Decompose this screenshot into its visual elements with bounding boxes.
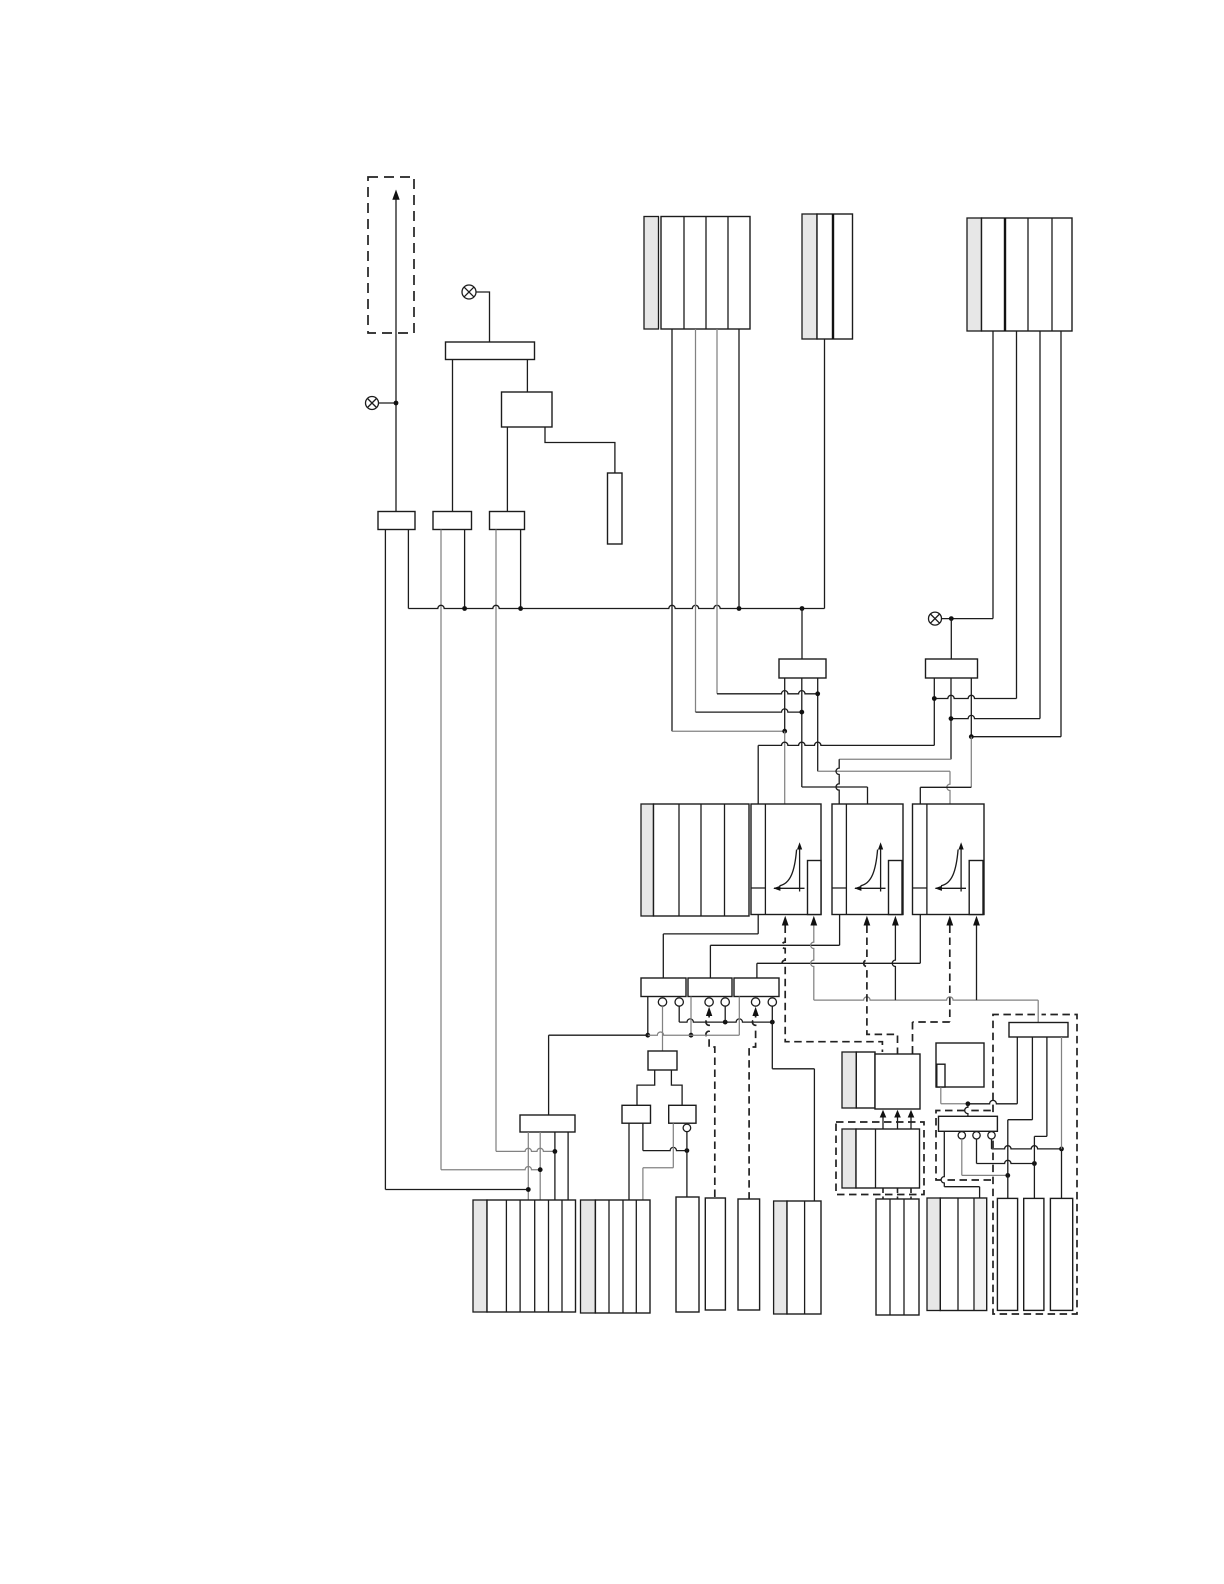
node bar1 line3 bbox=[815, 691, 820, 696]
bus wire with hops bbox=[408, 605, 824, 608]
wire bar1 line2 to box6 main bbox=[802, 787, 868, 804]
wire L4 to bar M2 bbox=[671, 1070, 682, 1105]
bar L2 bbox=[688, 978, 732, 997]
wire square output to right bar line1 (hop over dashed border) bbox=[968, 1100, 1017, 1103]
bar M1 bbox=[622, 1105, 651, 1123]
wire L0 line3 bbox=[554, 1132, 556, 1200]
wire L0 line4 bbox=[567, 1132, 569, 1200]
wire MB3 to NB3 feed (hops) bbox=[992, 1139, 1062, 1149]
node bus/bar1 feed bbox=[800, 606, 805, 611]
wire box A right to bus bbox=[407, 530, 409, 609]
wire mid bar left edge to box BM2 (hop over dashed bottom) bbox=[941, 1131, 980, 1198]
pin circle L1a bbox=[658, 998, 666, 1006]
wire bar2 line3 bbox=[970, 678, 972, 737]
node y1151/line3 bbox=[553, 1149, 558, 1154]
bar L0 bbox=[520, 1115, 575, 1132]
sheet connector symbol X2 bbox=[462, 285, 476, 299]
wire box6 left entry (hops over y771 and y787) bbox=[836, 759, 839, 804]
sheet connector symbol X1 bbox=[366, 397, 379, 410]
node MB1/NB1 feed bbox=[1005, 1173, 1010, 1178]
node M1 right / M2 circle line bbox=[685, 1148, 690, 1153]
parameter box B bbox=[433, 512, 472, 530]
wire box1 col1 to bar1 line1 (grey) bbox=[672, 730, 785, 732]
arrowhead up bbox=[392, 190, 399, 200]
box1 grey column bbox=[644, 217, 659, 330]
wire box C right to bus bbox=[520, 530, 522, 609]
slim block bbox=[608, 473, 623, 544]
wire bar1 line2 bbox=[801, 678, 803, 787]
wire solid arrow into box6 rect (hop over y963) bbox=[892, 926, 895, 1001]
wire bar2 feed bbox=[950, 619, 952, 659]
wire right bar line4 (grey) bbox=[1061, 1037, 1063, 1149]
right connector bar bbox=[1009, 1023, 1068, 1038]
wire L3 left edge down bbox=[738, 997, 740, 1036]
dashed frame around output arrow bbox=[368, 177, 414, 333]
arrowhead into box7 bbox=[946, 916, 953, 926]
box2 grey column bbox=[802, 214, 817, 339]
wire box3 col4 down bbox=[1060, 331, 1062, 737]
wire M2 circle to box N1 bbox=[686, 1132, 688, 1199]
long horizontal wire y1035 right part (grey with hops) bbox=[648, 1032, 740, 1035]
wire box5 output to bar L1 bbox=[663, 915, 758, 979]
function square block bbox=[936, 1043, 984, 1087]
wire box1 col3 to bar1 line3 bbox=[717, 691, 818, 694]
box BL2 bbox=[595, 1200, 650, 1313]
wire box1 col2 to bar1 line2 bbox=[696, 709, 802, 712]
wire T1 to box B bbox=[452, 360, 454, 512]
wire box6 output to bar L2 (hops over dashed and grey verticals) bbox=[710, 915, 839, 979]
dashed stub 2 to box BM1 bbox=[897, 1188, 899, 1199]
box BL1 grey column bbox=[473, 1200, 487, 1312]
grey feedback wire main run bbox=[814, 997, 1038, 1023]
wire bar2 line3 to box3 col4 bbox=[971, 736, 1061, 738]
wire box3 col3 down bbox=[1039, 331, 1041, 719]
wire solid arrow into box5 rect (grey) bbox=[811, 926, 814, 1001]
wire right bar line4 lower to box NB3 bbox=[1061, 1149, 1063, 1199]
pin circle L2b bbox=[721, 998, 729, 1006]
node junction on arrow line bbox=[394, 401, 399, 406]
wire T2 to slim block bbox=[545, 427, 615, 473]
parameter bar1 bbox=[779, 659, 826, 678]
dashed frame around lower composite bbox=[836, 1122, 924, 1195]
wire L4 to bar M1 bbox=[637, 1070, 655, 1105]
wire L1 left edge down bbox=[647, 997, 649, 1036]
node bar2 line2 bbox=[949, 716, 954, 721]
wire branch down into mid bar (hop over dashed edge) bbox=[965, 1104, 968, 1117]
wire box2 to bus end bbox=[824, 339, 826, 609]
box BL1 bbox=[487, 1200, 576, 1312]
node bar1 line1 bbox=[782, 729, 787, 734]
solid arrow up 3 into composite bbox=[908, 1110, 915, 1129]
dashed stub 1 to box BM1 bbox=[882, 1188, 884, 1199]
box4 parameter table bbox=[654, 804, 750, 916]
pin circle L3a bbox=[751, 998, 759, 1006]
box N1 bbox=[676, 1197, 699, 1312]
box NB3 bbox=[1050, 1198, 1072, 1310]
parameter bar2 bbox=[926, 659, 978, 678]
node L3b on y1022 bbox=[770, 1020, 775, 1025]
wire right bar line2 to box NB1 bbox=[1008, 1037, 1033, 1198]
wire box A left long drop bbox=[385, 530, 528, 1190]
wire L0 line2 (grey) bbox=[539, 1132, 541, 1200]
wire bar1 line1 upper bbox=[784, 678, 786, 731]
pin circle MB3 bbox=[988, 1132, 995, 1139]
box NB1 bbox=[997, 1198, 1017, 1310]
node L2 left / long horizontal bbox=[689, 1033, 694, 1038]
arrowhead into box6 rect bbox=[892, 916, 899, 926]
pin circle MB2 bbox=[973, 1132, 980, 1139]
wire box1 col3 (grey) bbox=[716, 329, 718, 694]
wire square output (grey part) bbox=[941, 1087, 968, 1104]
wire box1 col1 bbox=[671, 329, 673, 731]
wire box5 left entry bbox=[757, 745, 759, 804]
arrowhead into box5 bbox=[782, 916, 789, 926]
box BM2 light column bbox=[975, 1199, 986, 1310]
wire bar2 line2 bbox=[950, 678, 952, 759]
wire box3 col1 to connector X3 bbox=[942, 331, 994, 619]
node bus/box1 col4 bbox=[737, 606, 742, 611]
bar M2 bbox=[669, 1105, 696, 1123]
wire box C left joins L0 line3 (grey, hops over lines 1,2) bbox=[496, 1148, 555, 1151]
wire X1 to arrow line bbox=[379, 402, 397, 404]
wire bar2 line3 to box7 left bbox=[920, 787, 971, 804]
node bus/box C bbox=[518, 606, 523, 611]
pin circle MB1 bbox=[958, 1132, 965, 1139]
dashed wire from box6 down bbox=[864, 926, 898, 1055]
wire horizontal y1022 linking pin circles bbox=[679, 1019, 772, 1022]
box BL2 grey column bbox=[581, 1200, 596, 1313]
composite upper-left grey column bbox=[842, 1052, 856, 1108]
node X3 line / bar2 feed bbox=[949, 616, 954, 621]
wire bar2 line2 to box6 left (grey) bbox=[839, 758, 951, 760]
node bar2 line1 bbox=[932, 696, 937, 701]
box2 parameter table bbox=[817, 214, 853, 339]
bar1 feed from bus bbox=[801, 609, 803, 660]
ramp block box5 bbox=[751, 804, 821, 915]
arrowhead into box5 rect bbox=[810, 916, 817, 926]
box4 grey column bbox=[641, 804, 654, 916]
box BM1 bbox=[876, 1199, 919, 1315]
box1 parameter table bbox=[661, 217, 750, 330]
box3 parameter table bbox=[982, 218, 1073, 331]
arrowhead into box7 rect bbox=[973, 916, 980, 926]
wire L1a to L4 (grey) bbox=[662, 1006, 664, 1051]
function square notch bbox=[937, 1064, 945, 1087]
dashed wire up into L3a from box N3 bbox=[749, 1010, 756, 1199]
wire MB2 to NB2 feed (hop over NB1 feed) bbox=[977, 1139, 1035, 1164]
mid connector bar bbox=[939, 1116, 998, 1131]
wire T1 to box T2 bbox=[526, 360, 528, 393]
node MB2/NB2 feed bbox=[1032, 1161, 1037, 1166]
wire bar2 line1 to box5 left with hops bbox=[758, 742, 934, 745]
wire X2 to bar T1 bbox=[476, 292, 490, 342]
wire L0 line1 (grey) bbox=[527, 1132, 529, 1200]
wire bar1 line3 bbox=[817, 678, 819, 771]
box BM2 bbox=[940, 1198, 986, 1311]
box N2 bbox=[705, 1198, 725, 1310]
solid arrow up 2 into composite bbox=[894, 1110, 901, 1129]
solid arrow up 1 into composite bbox=[880, 1110, 887, 1129]
node bar1 line2 bbox=[799, 710, 804, 715]
ramp block box7 bbox=[913, 804, 985, 915]
node L2b on y1022 bbox=[723, 1020, 728, 1025]
bar L3 bbox=[734, 978, 779, 997]
wire T2 to box C bbox=[506, 427, 508, 512]
block L4 bbox=[648, 1051, 677, 1070]
wire box C left long drop (grey) bbox=[495, 530, 497, 1152]
wire box B right to bus bbox=[464, 530, 466, 609]
box7 curve glyph bbox=[935, 842, 966, 891]
node square output branch bbox=[966, 1101, 971, 1106]
big dashed frame bbox=[993, 1015, 1077, 1315]
box N4 bbox=[787, 1201, 821, 1314]
box N3 bbox=[738, 1199, 760, 1310]
composite upper-right box bbox=[875, 1054, 920, 1109]
arrowhead into L3a bbox=[752, 1007, 758, 1016]
pin circle M2 bbox=[683, 1124, 691, 1132]
node bus/box B bbox=[462, 606, 467, 611]
box NB2 bbox=[1024, 1198, 1044, 1310]
node bar2 line3 bbox=[969, 734, 974, 739]
wire bar2 line1 to box3 col2 bbox=[934, 695, 1016, 698]
wire L1b down bbox=[678, 1006, 680, 1022]
bar L1 bbox=[641, 978, 686, 997]
wire MB1 (grey) to NB1 feed bbox=[962, 1139, 1008, 1175]
wire solid arrow into box7 rect bbox=[976, 926, 978, 1001]
pin circle L1b bbox=[675, 998, 683, 1006]
arrowhead into L2a bbox=[706, 1007, 712, 1016]
wire box B left joins L0 line2 (grey, hop over line1) bbox=[441, 1167, 540, 1170]
parameter bar T1 bbox=[446, 342, 535, 360]
wire down into bar L0 bbox=[548, 1035, 550, 1115]
wire bar2 line3 lower (grey) bbox=[970, 737, 972, 788]
sheet connector symbol X3 bbox=[929, 612, 942, 625]
pin circle L2a bbox=[705, 998, 713, 1006]
wire M1 right joins M2 circle line (hop over grey) bbox=[643, 1123, 687, 1150]
mid dashed frame bbox=[936, 1111, 993, 1181]
wire right bar line3 to box NB2 bbox=[1034, 1037, 1047, 1198]
dashed wire from box7 down bbox=[913, 926, 950, 1055]
box3 grey column bbox=[967, 218, 982, 331]
arrowhead into box6 bbox=[864, 916, 871, 926]
composite lower grey column bbox=[842, 1129, 856, 1188]
wire box7 main entry (grey, hop over y787) bbox=[947, 771, 950, 804]
wire right bar line1 bbox=[1016, 1037, 1018, 1104]
wire box1 col2 (grey) bbox=[695, 329, 697, 712]
node MB3/NB3 feed bbox=[1059, 1147, 1064, 1152]
ramp block box6 bbox=[832, 804, 903, 915]
box5 curve glyph bbox=[773, 842, 804, 891]
pin circle L3b bbox=[768, 998, 776, 1006]
wire L2b stub bbox=[724, 1006, 726, 1022]
wire box A left joins L0 line1 bbox=[526, 1187, 531, 1192]
long horizontal wire y1035 to bar L0 bbox=[549, 1034, 648, 1036]
dashed stub 3 to box BM1 bbox=[910, 1188, 912, 1199]
dashed wire from box5 down bbox=[782, 926, 882, 1053]
wire box1 col4 to bus bbox=[738, 329, 740, 609]
node y1169/line2 bbox=[538, 1167, 543, 1172]
composite lower box bbox=[856, 1129, 920, 1188]
box BM2 grey column bbox=[927, 1198, 940, 1311]
wire M1 left to box BL2 bbox=[628, 1123, 630, 1200]
wire box7 output to bar L3 (hops) bbox=[757, 915, 920, 979]
parameter box A bbox=[378, 512, 415, 530]
wire L3b down and over to box N4 bbox=[772, 1006, 814, 1201]
wire L2 left edge down bbox=[690, 997, 692, 1036]
wire M2 left (grey) to box BL2 bbox=[643, 1123, 673, 1200]
node L1 left / long horizontal bbox=[645, 1033, 650, 1038]
wire box3 col2 down bbox=[1016, 331, 1018, 699]
wire bar1 line1 to box5 main (grey) bbox=[784, 731, 786, 804]
parameter box C bbox=[490, 512, 525, 530]
wire box B left long drop (grey) bbox=[440, 530, 442, 1170]
dashed wire up into L2a from box N2 bbox=[706, 1010, 715, 1198]
wire up-arrow shaft bbox=[395, 199, 397, 512]
box6 curve glyph bbox=[854, 842, 885, 891]
block T2 bbox=[502, 392, 553, 427]
wire bar2 line1 bbox=[933, 678, 935, 745]
composite upper-left box bbox=[856, 1052, 875, 1108]
wire bar2 line2 to box3 col3 bbox=[951, 715, 1040, 718]
box N4 grey column bbox=[774, 1201, 787, 1314]
wire bar1 line3 to box7 main (grey) bbox=[818, 770, 950, 772]
